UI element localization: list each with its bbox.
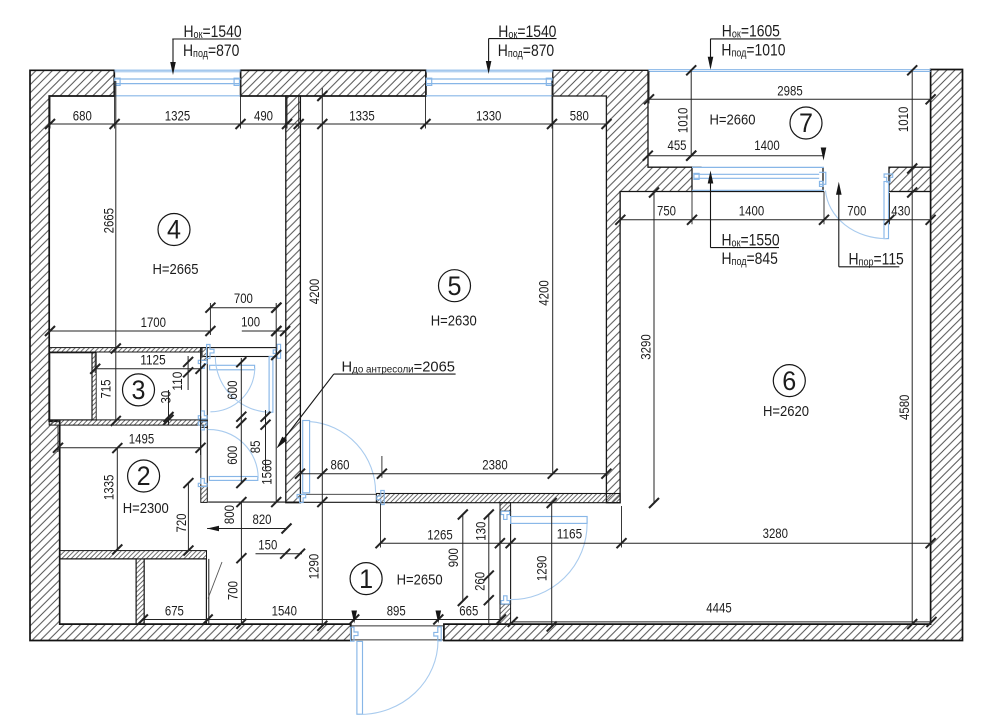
leader [710, 183, 712, 248]
closet B right double line [208, 559, 210, 624]
extension line [380, 504, 382, 548]
entrance door leaf [357, 641, 363, 714]
extension line [381, 456, 383, 478]
dimension line 1700 [50, 330, 210, 332]
extension line [823, 192, 825, 225]
svg-text:720: 720 [174, 514, 189, 533]
room 6 circle [773, 365, 805, 397]
kitchen door leaf [303, 421, 310, 493]
balcony south wall solid right part [889, 167, 931, 191]
svg-text:4445: 4445 [706, 600, 731, 615]
svg-text:1335: 1335 [102, 475, 117, 500]
door stub bottom solid [500, 604, 511, 624]
svg-text:675: 675 [165, 603, 184, 618]
closet divider bottom-left [136, 559, 144, 624]
svg-text:860: 860 [331, 457, 350, 472]
label Hpor=115 balcony door threshold [849, 250, 904, 269]
svg-text:4: 4 [167, 215, 181, 245]
extension line [691, 192, 693, 225]
balcony front glazing (Hok=1605) [648, 70, 930, 72]
svg-text:30: 30 [159, 391, 174, 404]
svg-text:1: 1 [359, 564, 373, 594]
svg-text:H=2665: H=2665 [153, 261, 199, 278]
svg-text:1010: 1010 [676, 108, 691, 133]
hall left wall edge line [200, 360, 202, 486]
hall left wall upper solid [201, 348, 208, 361]
label Hok=1540 window room 5 [498, 23, 556, 42]
partition wall rooms 4/5 [286, 96, 301, 503]
label Hok=1550 window under balcony [722, 231, 780, 250]
balcony door jamb line [822, 167, 824, 190]
svg-text:800: 800 [222, 505, 237, 524]
room 2 door jamb bottom [198, 479, 207, 487]
svg-text:700: 700 [226, 581, 241, 600]
entrance door jamb right [434, 627, 441, 641]
label Hpod=870 window room 4 [183, 42, 240, 61]
top wall right segment + wall room5/balcony + partition rooms 5/6 + balcony south wall left part (merged) [553, 70, 692, 502]
svg-text:715: 715 [99, 380, 114, 399]
dimension line 1125 [95, 368, 200, 370]
label Hpod=870 window room 5 [498, 42, 555, 61]
svg-text:H=2650: H=2650 [397, 571, 443, 588]
window under balcony (Hok=1550) [692, 167, 826, 190]
room 2 circle [128, 460, 160, 492]
svg-text:1330: 1330 [476, 109, 501, 124]
room 3 door jamb bottom [198, 411, 207, 419]
short wall edge line [692, 166, 702, 168]
svg-text:490: 490 [254, 109, 273, 124]
hall door swing arc [215, 357, 271, 412]
underline [172, 38, 241, 40]
leader diagonal [280, 374, 334, 444]
svg-text:665: 665 [459, 603, 478, 618]
kitchen doorway threshold top [300, 493, 376, 495]
svg-text:1700: 1700 [141, 315, 166, 330]
label H do antresoli=2065 [342, 359, 455, 376]
storage closet A bottom-left [60, 559, 136, 624]
svg-text:1325: 1325 [165, 109, 190, 124]
extension line [57, 426, 59, 452]
room 6 door jamb top [501, 511, 510, 519]
dimension line 150 [256, 553, 303, 555]
dimension line 1335 room2 [116, 448, 118, 549]
dimension line 30 [168, 390, 170, 425]
hall left wall lower solid [201, 486, 208, 502]
room 4 circle [158, 214, 190, 246]
dimension line 110 [187, 356, 189, 390]
svg-text:130: 130 [474, 522, 489, 541]
svg-text:1335: 1335 [349, 109, 374, 124]
svg-text:600: 600 [225, 446, 240, 465]
window room 5 (Hok=1540) [426, 70, 553, 96]
leader [710, 39, 712, 58]
stub wall edge line left [499, 511, 501, 604]
svg-text:820: 820 [253, 512, 272, 527]
svg-text:Нпод=1010: Нпод=1010 [721, 41, 785, 60]
dimension line 820 [207, 528, 286, 530]
room 5 circle [439, 270, 471, 302]
dimension line 1010 left [690, 70, 692, 155]
outer wall top-middle segment [241, 70, 426, 96]
room 3 door jamb top [198, 360, 207, 368]
hall/room1 boundary line [208, 501, 300, 503]
stub wall edge line right [510, 511, 512, 604]
room 2 door swing arc [208, 430, 259, 478]
room 6 door leaf [511, 517, 587, 524]
antresol jamb left [207, 345, 214, 359]
svg-text:110: 110 [170, 372, 185, 391]
room 3 circle [123, 374, 155, 406]
dimension line 1010 right / 4580 [911, 70, 913, 624]
dimension line 100 [242, 330, 285, 332]
extension line [889, 193, 891, 224]
svg-text:2665: 2665 [102, 208, 117, 233]
svg-text:Нпод=870: Нпод=870 [498, 42, 555, 61]
svg-text:1125: 1125 [140, 352, 165, 367]
extension line [619, 193, 621, 224]
extension line [551, 81, 553, 129]
room 6 door swing arc [510, 524, 587, 600]
entrance door jamb left [351, 627, 358, 641]
svg-text:260: 260 [473, 572, 488, 591]
leader [838, 194, 840, 267]
door stub top solid [500, 503, 511, 511]
hall left wall edge line 2 [206, 360, 208, 486]
room 3 door swing arc [210, 368, 254, 412]
hall door leaf [269, 357, 273, 413]
svg-text:700: 700 [234, 291, 253, 306]
label Hpod=1010 balcony [721, 41, 785, 60]
dimension line 720 [187, 483, 189, 550]
dimension line 2665/715 [115, 81, 117, 421]
kitchen door strike jamb [377, 491, 384, 505]
hall top wall (antresol front) [202, 348, 277, 357]
room 2 door jamb top [198, 422, 207, 430]
svg-text:455: 455 [668, 138, 687, 153]
room 3 door leaf [210, 365, 255, 370]
dimension line 860/2380 [300, 473, 606, 475]
dimension line 1560 [275, 303, 277, 502]
room 2 door leaf [209, 477, 257, 481]
hall left wall mid solid [201, 421, 208, 427]
underline [711, 247, 780, 249]
balcony door hinge jamb [884, 174, 893, 182]
svg-text:H=2630: H=2630 [431, 312, 477, 329]
kitchen door hinge jamb [297, 495, 306, 503]
extension line [209, 303, 211, 335]
dimension line 4445 [513, 621, 932, 623]
svg-text:1400: 1400 [739, 204, 764, 219]
room 1 circle [350, 563, 382, 595]
hall door top jamb [273, 344, 280, 358]
svg-text:2380: 2380 [482, 457, 507, 472]
extension line [286, 96, 288, 129]
label Hok=1540 window room 4 [184, 23, 242, 42]
label Hpod=845 window under balcony [722, 250, 778, 269]
svg-text:900: 900 [446, 548, 461, 567]
kitchen door swing arc [310, 422, 376, 493]
outer wall left + top-left + bottom-left (merged) [30, 70, 351, 640]
kitchen doorway threshold bottom [300, 501, 376, 503]
svg-text:6: 6 [782, 366, 796, 396]
dimension line 260 [488, 515, 490, 624]
svg-text:Нпод=845: Нпод=845 [722, 250, 778, 269]
svg-text:5: 5 [448, 271, 462, 301]
extension line [94, 353, 96, 373]
svg-text:Нок=1605: Нок=1605 [722, 22, 780, 41]
room 4 bottom thin wall [49, 348, 202, 352]
entrance threshold outer [351, 639, 444, 641]
dimension line 1265/130/1165/3280 [381, 542, 931, 544]
dimension line 455/1400 balcony [648, 155, 824, 157]
svg-text:2: 2 [137, 461, 151, 491]
extension line [621, 506, 623, 548]
svg-text:750: 750 [657, 204, 676, 219]
svg-text:600: 600 [225, 381, 240, 400]
dimension line 1290 right [551, 503, 553, 626]
balcony south wall bottom edge across window [692, 191, 824, 193]
svg-text:7: 7 [799, 108, 813, 138]
entrance door swing arc [360, 641, 438, 715]
top dimension line rooms 4-5 [50, 123, 607, 125]
svg-text:1010: 1010 [896, 107, 911, 132]
svg-text:1495: 1495 [129, 431, 154, 446]
divider closet/room 3 [92, 353, 96, 420]
storage closet B bottom-left [144, 559, 206, 624]
built-in closet left of room 3 [50, 353, 92, 420]
svg-text:100: 100 [241, 315, 260, 330]
svg-text:680: 680 [73, 109, 92, 124]
dimension line 4200 right [552, 96, 554, 474]
dimension line 900 [462, 515, 464, 602]
extension line right of rooms 2/3 [200, 348, 202, 455]
diagonal mark near closet B [208, 562, 222, 599]
svg-text:3: 3 [132, 375, 146, 405]
extension line [49, 96, 51, 129]
svg-text:1290: 1290 [535, 556, 550, 581]
underline [489, 38, 557, 40]
svg-text:1165: 1165 [557, 527, 582, 542]
svg-text:85: 85 [248, 441, 263, 454]
leader [172, 39, 174, 63]
room 2 bottom wall [60, 551, 207, 559]
room 7 circle [790, 107, 822, 139]
extension line [298, 96, 300, 129]
wall rooms 3/2 [49, 420, 207, 425]
dimension line 675/1540/895/665 [143, 619, 501, 621]
dimension line 800/700 closet [240, 502, 242, 624]
underline [839, 266, 900, 268]
svg-text:430: 430 [891, 203, 910, 218]
svg-text:4200: 4200 [307, 279, 322, 304]
svg-text:H=2300: H=2300 [123, 500, 169, 517]
svg-text:895: 895 [387, 603, 406, 618]
svg-text:700: 700 [847, 203, 866, 218]
extension line [114, 81, 116, 129]
underline [710, 38, 781, 40]
balcony door swing arc [826, 191, 887, 239]
svg-text:3280: 3280 [763, 526, 788, 541]
svg-text:1540: 1540 [272, 603, 297, 618]
dimension line 1495 [58, 447, 201, 449]
svg-text:150: 150 [258, 537, 277, 552]
dimension line 700 antresol [210, 307, 276, 309]
dimension line 4200 left / 1290 left [321, 88, 323, 626]
dimension line 750/1400/700/430 [620, 219, 930, 221]
extension line [240, 81, 242, 129]
svg-text:H=2620: H=2620 [763, 403, 809, 420]
svg-text:Нпод=870: Нпод=870 [183, 42, 240, 61]
svg-text:1265: 1265 [427, 527, 452, 542]
balcony door leaf [884, 182, 889, 239]
svg-text:2985: 2985 [777, 84, 802, 99]
svg-text:1560: 1560 [260, 459, 275, 484]
svg-text:580: 580 [570, 109, 589, 124]
extension line [606, 96, 608, 129]
dimension line 2985 [649, 98, 931, 100]
leader [488, 39, 490, 62]
svg-text:4200: 4200 [537, 280, 552, 305]
extension line [425, 81, 427, 129]
svg-text:3290: 3290 [639, 334, 654, 359]
dimension line 3290 [653, 193, 655, 504]
dimension line 600/600 [240, 358, 242, 483]
outer wall right + bottom-right (merged) [444, 70, 963, 641]
svg-text:1290: 1290 [307, 554, 322, 579]
entrance threshold inner [351, 625, 444, 627]
svg-text:1400: 1400 [754, 138, 779, 153]
room 5 south wall [376, 494, 620, 503]
dimension line 85 [265, 410, 267, 469]
svg-text:H=2660: H=2660 [710, 112, 756, 129]
label Hok=1605 balcony [722, 22, 780, 41]
room 6 door jamb bottom [501, 596, 510, 604]
window room 4 (Hok=1540) [114, 70, 240, 96]
svg-text:4580: 4580 [897, 395, 912, 420]
extension line [648, 71, 650, 104]
underline [334, 373, 456, 375]
